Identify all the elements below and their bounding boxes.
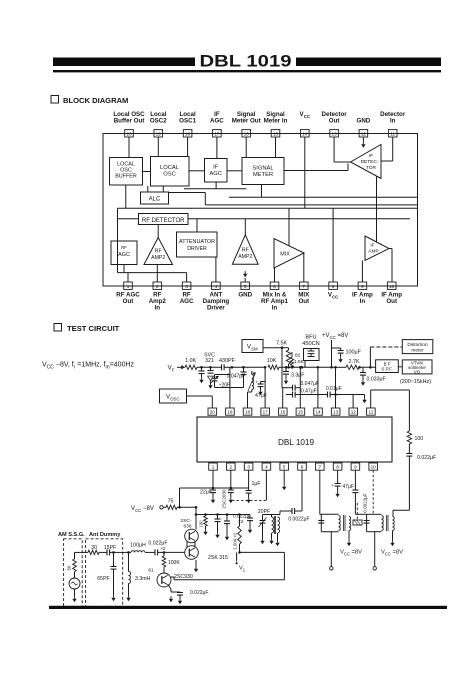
svg-text:Out: Out bbox=[386, 298, 397, 305]
svg-text:IF: IF bbox=[369, 153, 373, 159]
amp MIX bbox=[274, 239, 304, 269]
AM SSG dashed box bbox=[64, 539, 83, 607]
inductor 100uH bbox=[130, 542, 152, 552]
wire pin11 riser bbox=[371, 390, 410, 408]
svg-text:8: 8 bbox=[336, 465, 339, 470]
capacitor 1uF bbox=[246, 481, 261, 503]
IC bottom pin 1 bbox=[209, 463, 218, 470]
pin 18 (Local OSC1) bbox=[179, 111, 196, 137]
svg-text:VCC −8V, fr =1MHz, fm=400Hz: VCC −8V, fr =1MHz, fm=400Hz bbox=[42, 362, 135, 371]
svg-text:61: 61 bbox=[148, 567, 154, 573]
svg-text:11: 11 bbox=[368, 410, 373, 415]
pin 6 (Mix In & RF Amp1 In) bbox=[261, 282, 288, 311]
svg-text:VCC: VCC bbox=[300, 111, 311, 119]
svg-text:2SC2030: 2SC2030 bbox=[222, 489, 227, 509]
pin 15 (Signal Meter In) bbox=[264, 111, 288, 137]
wire pin8 Vcc up to bus bbox=[332, 208, 334, 282]
svg-text:+VCC =8V: +VCC =8V bbox=[322, 333, 348, 340]
svg-text:+: + bbox=[255, 380, 258, 385]
wire Q pair links bbox=[187, 541, 198, 572]
padder component bbox=[353, 503, 362, 525]
capacitor 0.022uF (load) bbox=[406, 454, 436, 511]
IC top pin 16 bbox=[278, 408, 287, 415]
block diagram checkbox bbox=[51, 96, 59, 104]
svg-text:V1: V1 bbox=[239, 565, 246, 572]
svg-text:VCC −8V: VCC −8V bbox=[131, 506, 154, 513]
wire pin3 down bbox=[248, 470, 250, 488]
label 61 bbox=[148, 567, 154, 573]
Vcc label B bbox=[381, 550, 403, 557]
svg-text:4: 4 bbox=[265, 465, 268, 470]
pin 7 (MIX Out) bbox=[298, 282, 310, 305]
svg-text:100μF: 100μF bbox=[346, 349, 362, 355]
wire pin14 riser bbox=[317, 367, 319, 408]
svg-text:SIGNAL: SIGNAL bbox=[252, 166, 274, 172]
output tank B bbox=[364, 514, 384, 531]
wire pin11 to IF DETECTOR input bbox=[381, 137, 393, 161]
svg-text:0.022μF: 0.022μF bbox=[190, 590, 208, 596]
svg-text:OSC1: OSC1 bbox=[179, 118, 196, 125]
svg-text:In: In bbox=[390, 118, 396, 125]
svg-text:AGC: AGC bbox=[180, 298, 194, 305]
IC bottom pin 3 bbox=[244, 463, 253, 470]
svg-text:BFU: BFU bbox=[305, 335, 316, 341]
svg-text:3.3μF: 3.3μF bbox=[291, 372, 304, 378]
svg-text:16: 16 bbox=[280, 410, 286, 415]
svg-text:BLOCK DIAGRAM: BLOCK DIAGRAM bbox=[63, 96, 128, 105]
wire lower rail bbox=[118, 272, 187, 274]
Ant dummy dashed box bbox=[86, 539, 123, 607]
wire output B bbox=[373, 532, 376, 570]
IF transformer T1 secondary bbox=[274, 516, 279, 546]
Vcc label 8V bbox=[322, 333, 348, 367]
svg-text:GND: GND bbox=[357, 118, 371, 125]
resistor 82 / 1.5K bbox=[290, 352, 304, 367]
IC bottom pin 7 bbox=[316, 463, 325, 470]
capacitor 15PF bbox=[99, 545, 123, 555]
svg-text:2.7K: 2.7K bbox=[348, 359, 359, 365]
IF transformer T1 primary bbox=[269, 515, 273, 545]
wire IF AGC to SIGNAL METER bbox=[227, 170, 242, 172]
capacitor at node A bbox=[199, 367, 205, 383]
svg-text:1.0K: 1.0K bbox=[185, 358, 196, 364]
wire pin12 riser bbox=[353, 395, 367, 409]
svg-text:Ant Dummy: Ant Dummy bbox=[89, 532, 121, 538]
svg-text:AGC: AGC bbox=[118, 252, 130, 258]
capacitor cluster 1 bbox=[215, 515, 221, 539]
svg-text:TEST CIRCUIT: TEST CIRCUIT bbox=[67, 324, 120, 333]
amp IF DETECTOR bbox=[351, 145, 382, 179]
wire pin13 riser bbox=[334, 366, 353, 408]
svg-text:VF: VF bbox=[168, 365, 175, 372]
wire BPF to VTVM bbox=[398, 366, 402, 368]
label 2SK 315 bbox=[208, 555, 228, 561]
svg-text:Meter Out: Meter Out bbox=[232, 118, 261, 125]
output tank A secondary bbox=[344, 515, 352, 546]
IC top pin 19 bbox=[226, 408, 235, 415]
svg-text:×2: ×2 bbox=[238, 519, 244, 525]
svg-text:6: 6 bbox=[301, 465, 304, 470]
amp RF AMP2 (second) bbox=[232, 235, 258, 264]
svg-text:3.3mH: 3.3mH bbox=[135, 576, 151, 582]
wire pin1 down bbox=[212, 470, 214, 488]
amp RF AMP2 (first) bbox=[144, 238, 173, 265]
test circuit heading bbox=[67, 324, 120, 333]
wire pin4 up to ATTENUATOR DRIVER bbox=[215, 257, 217, 282]
svg-text:636: 636 bbox=[183, 523, 191, 529]
svg-text:OSC: OSC bbox=[163, 172, 176, 178]
wire dashed pin4 bbox=[232, 470, 266, 500]
svg-text:100: 100 bbox=[199, 520, 204, 528]
pin 16 (Signal Meter Out) bbox=[232, 111, 261, 137]
tank trimmer 20PF bbox=[259, 515, 267, 545]
wire V1 node bbox=[238, 544, 284, 554]
wire RF AGC down bbox=[123, 265, 125, 273]
svg-text:12: 12 bbox=[351, 410, 357, 415]
label 0.022uF X2 (input) bbox=[148, 540, 167, 551]
svg-text:100μH: 100μH bbox=[130, 542, 146, 548]
label 20PF bbox=[258, 509, 270, 515]
label 200-15kHz bbox=[400, 379, 431, 385]
svg-text:0.0022μF: 0.0022μF bbox=[288, 517, 309, 523]
wire -8V rail bbox=[177, 506, 197, 509]
svg-text:GND: GND bbox=[238, 291, 252, 298]
block LOCAL OSC bbox=[151, 157, 190, 187]
wire IF AGC down bbox=[184, 182, 246, 189]
wire top rail bbox=[180, 487, 249, 490]
bus wire y197 bbox=[229, 196, 418, 198]
wire bus to 2.7K bbox=[330, 366, 346, 369]
pin 12 ( GND) bbox=[357, 118, 371, 137]
wire tank bottom bbox=[230, 388, 244, 409]
svg-text:321: 321 bbox=[205, 358, 214, 364]
wire output A bbox=[330, 532, 333, 570]
svg-text:+: + bbox=[331, 483, 334, 488]
svg-text:0.01μF: 0.01μF bbox=[326, 386, 342, 392]
wire pin18 to LOCAL OSC bbox=[187, 137, 189, 157]
svg-text:In: In bbox=[272, 304, 278, 311]
wire IF DETECTOR to IF AMP bbox=[376, 176, 378, 242]
capacitor 0.01uF bbox=[324, 386, 342, 397]
svg-text:MIX: MIX bbox=[280, 252, 290, 258]
wire RF AMP2(2) apex up bbox=[244, 219, 246, 235]
IC bottom pin 10 bbox=[369, 463, 378, 470]
capacitor cluster 3 bbox=[247, 515, 253, 534]
capacitor 3.3uF bbox=[283, 366, 304, 384]
wire tank1 top bbox=[263, 511, 293, 515]
svg-text:AMP: AMP bbox=[368, 249, 378, 255]
pin 5 (GND) bbox=[238, 282, 252, 298]
wire node A bbox=[197, 366, 219, 369]
wire RF AMP2 apex to RF DETECTOR bbox=[157, 225, 159, 238]
resistor 100K x2 (vertical) bbox=[232, 515, 241, 550]
amp IF AMP bbox=[365, 236, 389, 261]
wire LOCAL OSC to ALC (left) bbox=[147, 186, 149, 192]
IC top pin 13 bbox=[331, 408, 340, 415]
trimmer capacitor ~20P bbox=[211, 375, 232, 389]
block IF AGC bbox=[205, 159, 228, 183]
block ALC bbox=[141, 192, 169, 204]
label 0.022uF x2 bbox=[233, 513, 251, 525]
transistor 2SC636 Q2 bbox=[185, 546, 199, 560]
pin 2 (RF Amp2 In) bbox=[149, 282, 167, 311]
svg-text:DBL 1019: DBL 1019 bbox=[200, 53, 292, 71]
pin 20 (Local OSC Buffer Out) bbox=[113, 111, 145, 137]
svg-text:1μF: 1μF bbox=[251, 481, 260, 487]
wire to Q1 bbox=[195, 507, 197, 529]
ground at pin12 bbox=[361, 142, 365, 148]
wire V1 drop bbox=[283, 552, 285, 579]
capacitor 22uF bbox=[200, 488, 216, 503]
block ATTENUATOR DRIVER bbox=[177, 232, 218, 257]
svg-text:AM S.S.G.: AM S.S.G. bbox=[58, 532, 85, 538]
bus wire y219 bbox=[118, 218, 411, 220]
wire LOCAL OSC to ALC (right) bbox=[162, 186, 164, 192]
svg-text:meter: meter bbox=[411, 347, 424, 353]
wire VOSC to pin20 bbox=[187, 396, 213, 408]
svg-text:Out: Out bbox=[298, 298, 309, 305]
pin 3 (RF AGC) bbox=[180, 282, 194, 305]
wire to 0.022uF bbox=[408, 444, 410, 454]
wire pin18 to tank bbox=[248, 392, 252, 408]
svg-text:VCC: VCC bbox=[328, 291, 339, 299]
IC bottom pin 4 bbox=[262, 463, 271, 470]
svg-text:In: In bbox=[155, 304, 161, 311]
block distortion meter bbox=[402, 340, 433, 354]
svg-text:3: 3 bbox=[247, 465, 250, 470]
wire pin7 up to MIX out bbox=[303, 253, 305, 282]
wire load to tank B bbox=[393, 510, 409, 516]
svg-text:RF: RF bbox=[155, 249, 162, 255]
wire junction to distortion meter bbox=[370, 347, 402, 367]
wire passive cluster feed bbox=[195, 513, 250, 516]
svg-text:47μF: 47μF bbox=[343, 484, 355, 490]
svg-text:100K: 100K bbox=[168, 560, 180, 566]
block diagram outer boundary bbox=[103, 134, 418, 287]
svg-text:82: 82 bbox=[295, 353, 301, 359]
capacitor 430PF bbox=[219, 358, 236, 370]
wire tank left bbox=[229, 367, 231, 387]
pin 4 (ANT Damping Driver) bbox=[203, 282, 230, 311]
svg-text:B F: B F bbox=[384, 361, 391, 366]
pin 8 () bbox=[328, 282, 339, 299]
capacitor 0.033uF bbox=[360, 367, 386, 385]
svg-text:15: 15 bbox=[298, 410, 304, 415]
capacitor 65PF bbox=[97, 552, 116, 601]
output tank A bbox=[318, 514, 340, 531]
svg-text:10K: 10K bbox=[267, 358, 277, 364]
svg-text:1.00K ×2: 1.00K ×2 bbox=[232, 532, 237, 550]
IC top pin 20 bbox=[208, 408, 217, 415]
svg-text:OSC2: OSC2 bbox=[150, 118, 167, 125]
capacitor 0.022uF (input) bbox=[152, 549, 164, 555]
IC bottom pin 2 bbox=[227, 463, 236, 470]
wire pin9 capacitor bbox=[352, 470, 367, 514]
wire dummy out bbox=[123, 551, 131, 554]
IC DBL 1019 body bbox=[197, 417, 392, 462]
wire node B bbox=[231, 366, 265, 369]
capacitor 0.047uF (upper) bbox=[282, 381, 319, 391]
wire pin7 down bbox=[320, 470, 322, 514]
resistor 100K (bias) bbox=[162, 551, 185, 573]
IC top pin 12 bbox=[349, 408, 358, 415]
wire IF AMP output to pin10 bbox=[389, 249, 392, 283]
svg-text:14: 14 bbox=[315, 410, 321, 415]
wire pin6 down bbox=[301, 470, 303, 511]
IC bottom pin 5 bbox=[280, 463, 289, 470]
svg-text:7: 7 bbox=[319, 465, 322, 470]
svg-text:0.033μF: 0.033μF bbox=[367, 376, 386, 382]
node VSM box bbox=[242, 340, 263, 353]
svg-text:0.047μF: 0.047μF bbox=[301, 381, 319, 387]
svg-text:75: 75 bbox=[168, 499, 174, 505]
svg-text:0.47μF: 0.47μF bbox=[301, 389, 317, 395]
block SIGNAL METER bbox=[242, 158, 284, 185]
resistor 100 (vertical) bbox=[199, 515, 208, 536]
wire pin15 to SIGNAL METER bbox=[275, 137, 277, 158]
wire pin10 dashed bbox=[372, 470, 374, 514]
resistor 100 bbox=[407, 431, 423, 444]
svg-text:ATTENUATOR: ATTENUATOR bbox=[179, 239, 215, 245]
svg-text:65PF: 65PF bbox=[97, 576, 109, 582]
svg-text:RF DETECTOR: RF DETECTOR bbox=[142, 218, 185, 224]
wire left riser bbox=[117, 208, 119, 272]
wire pin16 to SIGNAL METER bbox=[245, 137, 247, 158]
transistor 2SC636 Q1 bbox=[181, 518, 199, 543]
IC bottom pin 6 bbox=[298, 463, 307, 470]
capacitor 0.047uF (tank) bbox=[227, 366, 247, 388]
output tank B secondary bbox=[387, 515, 395, 546]
svg-text:20: 20 bbox=[210, 410, 216, 415]
svg-text:50: 50 bbox=[67, 565, 72, 570]
pin 10 (IF Amp Out) bbox=[381, 282, 402, 305]
svg-text:AGC: AGC bbox=[209, 171, 222, 177]
ground above pin5 bbox=[243, 271, 247, 282]
wire pin3 up bbox=[186, 273, 188, 282]
header title DBL 1019 bbox=[200, 53, 292, 71]
terminal V1 bbox=[236, 552, 246, 572]
wire BFU to pin15 bbox=[299, 361, 305, 409]
resistor 75 bbox=[166, 499, 177, 510]
svg-text:0.0022μF: 0.0022μF bbox=[363, 493, 368, 513]
svg-text:17: 17 bbox=[263, 410, 269, 415]
resistor 30 bbox=[88, 545, 99, 554]
block B.P.F. bbox=[376, 360, 399, 373]
capacitor 0.47uF (lower) bbox=[286, 389, 324, 398]
resistor 7.5K bbox=[276, 340, 291, 367]
svg-text:100: 100 bbox=[415, 436, 424, 442]
resistor 1.0K bbox=[185, 358, 197, 370]
header bar left bbox=[53, 58, 195, 67]
svg-text:ALC: ALC bbox=[149, 197, 161, 203]
ground pin5 bbox=[282, 470, 286, 490]
wire SSG out bbox=[75, 551, 89, 553]
wire pin17 riser bbox=[264, 366, 267, 408]
wire SIGNAL METER to IF DETECTOR bbox=[284, 164, 348, 171]
svg-text:IF: IF bbox=[370, 243, 374, 249]
svg-text:AMP2: AMP2 bbox=[151, 255, 165, 261]
wire pin20 to LOCAL OSC BUFFER bbox=[128, 137, 130, 158]
svg-text:430PF: 430PF bbox=[219, 358, 236, 364]
svg-text:19: 19 bbox=[227, 410, 233, 415]
inductor tank coil bbox=[248, 371, 256, 392]
IC top pin 11 bbox=[367, 408, 376, 415]
svg-text:Out: Out bbox=[123, 298, 134, 305]
svg-text:VO: VO bbox=[414, 369, 421, 374]
wire ALC to node bbox=[169, 193, 206, 205]
pin 17 (IF AGC) bbox=[210, 111, 224, 137]
capacitor 47uF bbox=[255, 380, 267, 399]
pin 19 (Local OSC2) bbox=[150, 111, 167, 137]
IC top pin 15 bbox=[296, 408, 305, 415]
test conditions bbox=[42, 362, 135, 371]
IC top pin 18 bbox=[243, 408, 252, 415]
wire buffer down bbox=[125, 185, 127, 208]
svg-text:RF: RF bbox=[242, 248, 249, 254]
svg-text:RF: RF bbox=[121, 245, 127, 250]
varactor SVC 321 bbox=[204, 353, 215, 389]
transistor 2SC930 bbox=[157, 573, 193, 587]
wire pin12 stub bbox=[362, 137, 364, 142]
header thin rule bbox=[53, 70, 441, 72]
wire SIGNAL METER down bbox=[261, 185, 263, 198]
svg-text:VSM: VSM bbox=[247, 344, 258, 352]
capacitor 100uF bbox=[332, 348, 362, 363]
svg-text:VCC =8V: VCC =8V bbox=[340, 550, 362, 557]
svg-text:2SC-: 2SC- bbox=[181, 518, 192, 524]
wire VSM to junction bbox=[263, 346, 283, 349]
wire pin14 Vcc down to bus bbox=[304, 137, 306, 208]
block LOCAL OSC BUFFER bbox=[110, 158, 143, 186]
svg-text:Distortion: Distortion bbox=[407, 342, 428, 348]
wire pin1 up bbox=[127, 273, 129, 282]
IC top pin 17 bbox=[261, 408, 270, 415]
wire IF out load line bbox=[408, 390, 410, 431]
pin 13 (Detector Out) bbox=[322, 111, 348, 137]
capacitor 47uF (pin8) bbox=[331, 470, 354, 497]
svg-text:IF: IF bbox=[213, 165, 219, 171]
svg-text:VCC =8V: VCC =8V bbox=[381, 550, 403, 557]
svg-text:Driver: Driver bbox=[207, 304, 225, 311]
node VOSC box bbox=[160, 389, 187, 403]
wire ATTENUATOR DRIVER top bbox=[196, 219, 198, 232]
capacitor at pin2 (2SC2030) bbox=[222, 488, 234, 509]
wire to LPF bbox=[358, 366, 375, 369]
svg-text:In: In bbox=[360, 298, 366, 305]
wire pin19 to LOCAL OSC bbox=[157, 137, 159, 157]
wire pin13 to IF DETECTOR output bbox=[334, 137, 350, 162]
label Vcc -8V bbox=[131, 506, 154, 513]
svg-text:S.P.F.: S.P.F. bbox=[381, 367, 392, 372]
wire rail riser bbox=[179, 488, 181, 507]
wire pin2 up to RF AMP2 bbox=[156, 265, 158, 283]
svg-text:10: 10 bbox=[371, 465, 377, 470]
wire LOCAL OSC to IF AGC bbox=[189, 170, 205, 172]
inductor 3.3mH bbox=[126, 552, 150, 601]
bottom border rule bbox=[49, 606, 447, 609]
svg-text:DETEC-: DETEC- bbox=[361, 159, 379, 165]
label Ant Dummy bbox=[89, 532, 121, 538]
svg-text:5: 5 bbox=[283, 465, 286, 470]
pin 9 (IF Amp In) bbox=[352, 282, 373, 305]
test circuit checkbox bbox=[54, 324, 62, 332]
node VF input bbox=[168, 365, 185, 372]
svg-text:AGC: AGC bbox=[210, 118, 224, 125]
svg-text:2SK 315: 2SK 315 bbox=[208, 555, 228, 561]
capacitor 0.022uF (emitter) bbox=[177, 590, 208, 604]
wire pin17 to IF AGC bbox=[216, 137, 218, 159]
wire pin6 up to MIX bbox=[274, 268, 276, 282]
